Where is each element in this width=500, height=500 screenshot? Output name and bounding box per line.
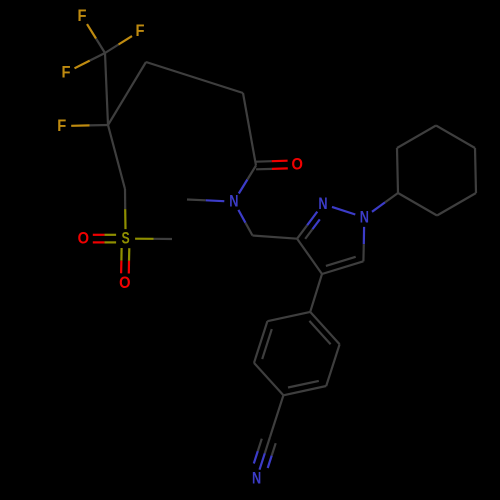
bond ring B-nitrile C xyxy=(270,395,283,437)
benzene ring B edge B5=B6 xyxy=(254,321,267,363)
svg-text:S: S xyxy=(122,230,130,248)
bond CF3C-CF carbon xyxy=(105,53,108,125)
bond S-CH3 xyxy=(135,238,153,240)
bond C-C chain xyxy=(146,62,243,93)
double bond C=O amide xyxy=(256,168,272,171)
benzene ring B edge B4-B5 xyxy=(254,363,283,395)
svg-text:N: N xyxy=(318,195,327,213)
benzene ring B edge B6-B1 xyxy=(267,312,310,321)
benzene ring B edge B2-B3 xyxy=(326,344,339,386)
cyclohexyl ring xyxy=(397,148,398,193)
bond C-F (CF3 top F) xyxy=(96,39,105,54)
svg-text:N: N xyxy=(252,470,261,488)
svg-text:F: F xyxy=(78,7,87,25)
svg-text:N: N xyxy=(229,193,238,211)
svg-text:O: O xyxy=(292,155,304,173)
svg-text:O: O xyxy=(119,274,131,292)
bond N-C(=O) xyxy=(239,180,248,194)
svg-text:N: N xyxy=(360,208,369,226)
benzene ring B edge B3=B4 xyxy=(283,386,326,395)
double bond C4=C5 pyrazole xyxy=(322,261,363,274)
triple bond C#N nitrile xyxy=(265,437,270,453)
svg-text:F: F xyxy=(57,117,66,135)
bond N1-C5 pyrazole xyxy=(363,227,366,244)
bond C-S xyxy=(124,189,126,209)
bond C4-benzonitrile ring xyxy=(310,274,322,312)
svg-text:F: F xyxy=(136,22,145,40)
bond C-C upper chain xyxy=(108,62,146,125)
bond N2-N1 pyrazole xyxy=(332,207,355,215)
benzene ring B edge B1=B2 xyxy=(310,312,339,344)
double bond C3=N2 pyrazole xyxy=(297,225,307,239)
bond N-CH2 xyxy=(238,210,245,223)
bond N1-CH2 cyclohexylmethyl xyxy=(372,202,385,211)
bond C4-C3 pyrazole xyxy=(297,239,322,274)
double bond S=O down xyxy=(120,248,122,261)
svg-text:O: O xyxy=(78,230,90,248)
double bond S=O left xyxy=(104,234,116,236)
bond C-C to sulfone carbon xyxy=(108,125,125,189)
svg-text:F: F xyxy=(62,64,71,82)
bond C-F (CF3 right F) xyxy=(105,45,119,54)
bond N-CH3 xyxy=(206,199,225,202)
bond C-F (CF3 left F) xyxy=(90,53,105,61)
bond C-C to carbonyl xyxy=(243,93,256,166)
bond F-C (ring fluorine) xyxy=(71,124,89,127)
bond CH2-C3 pyrazole xyxy=(253,236,298,239)
